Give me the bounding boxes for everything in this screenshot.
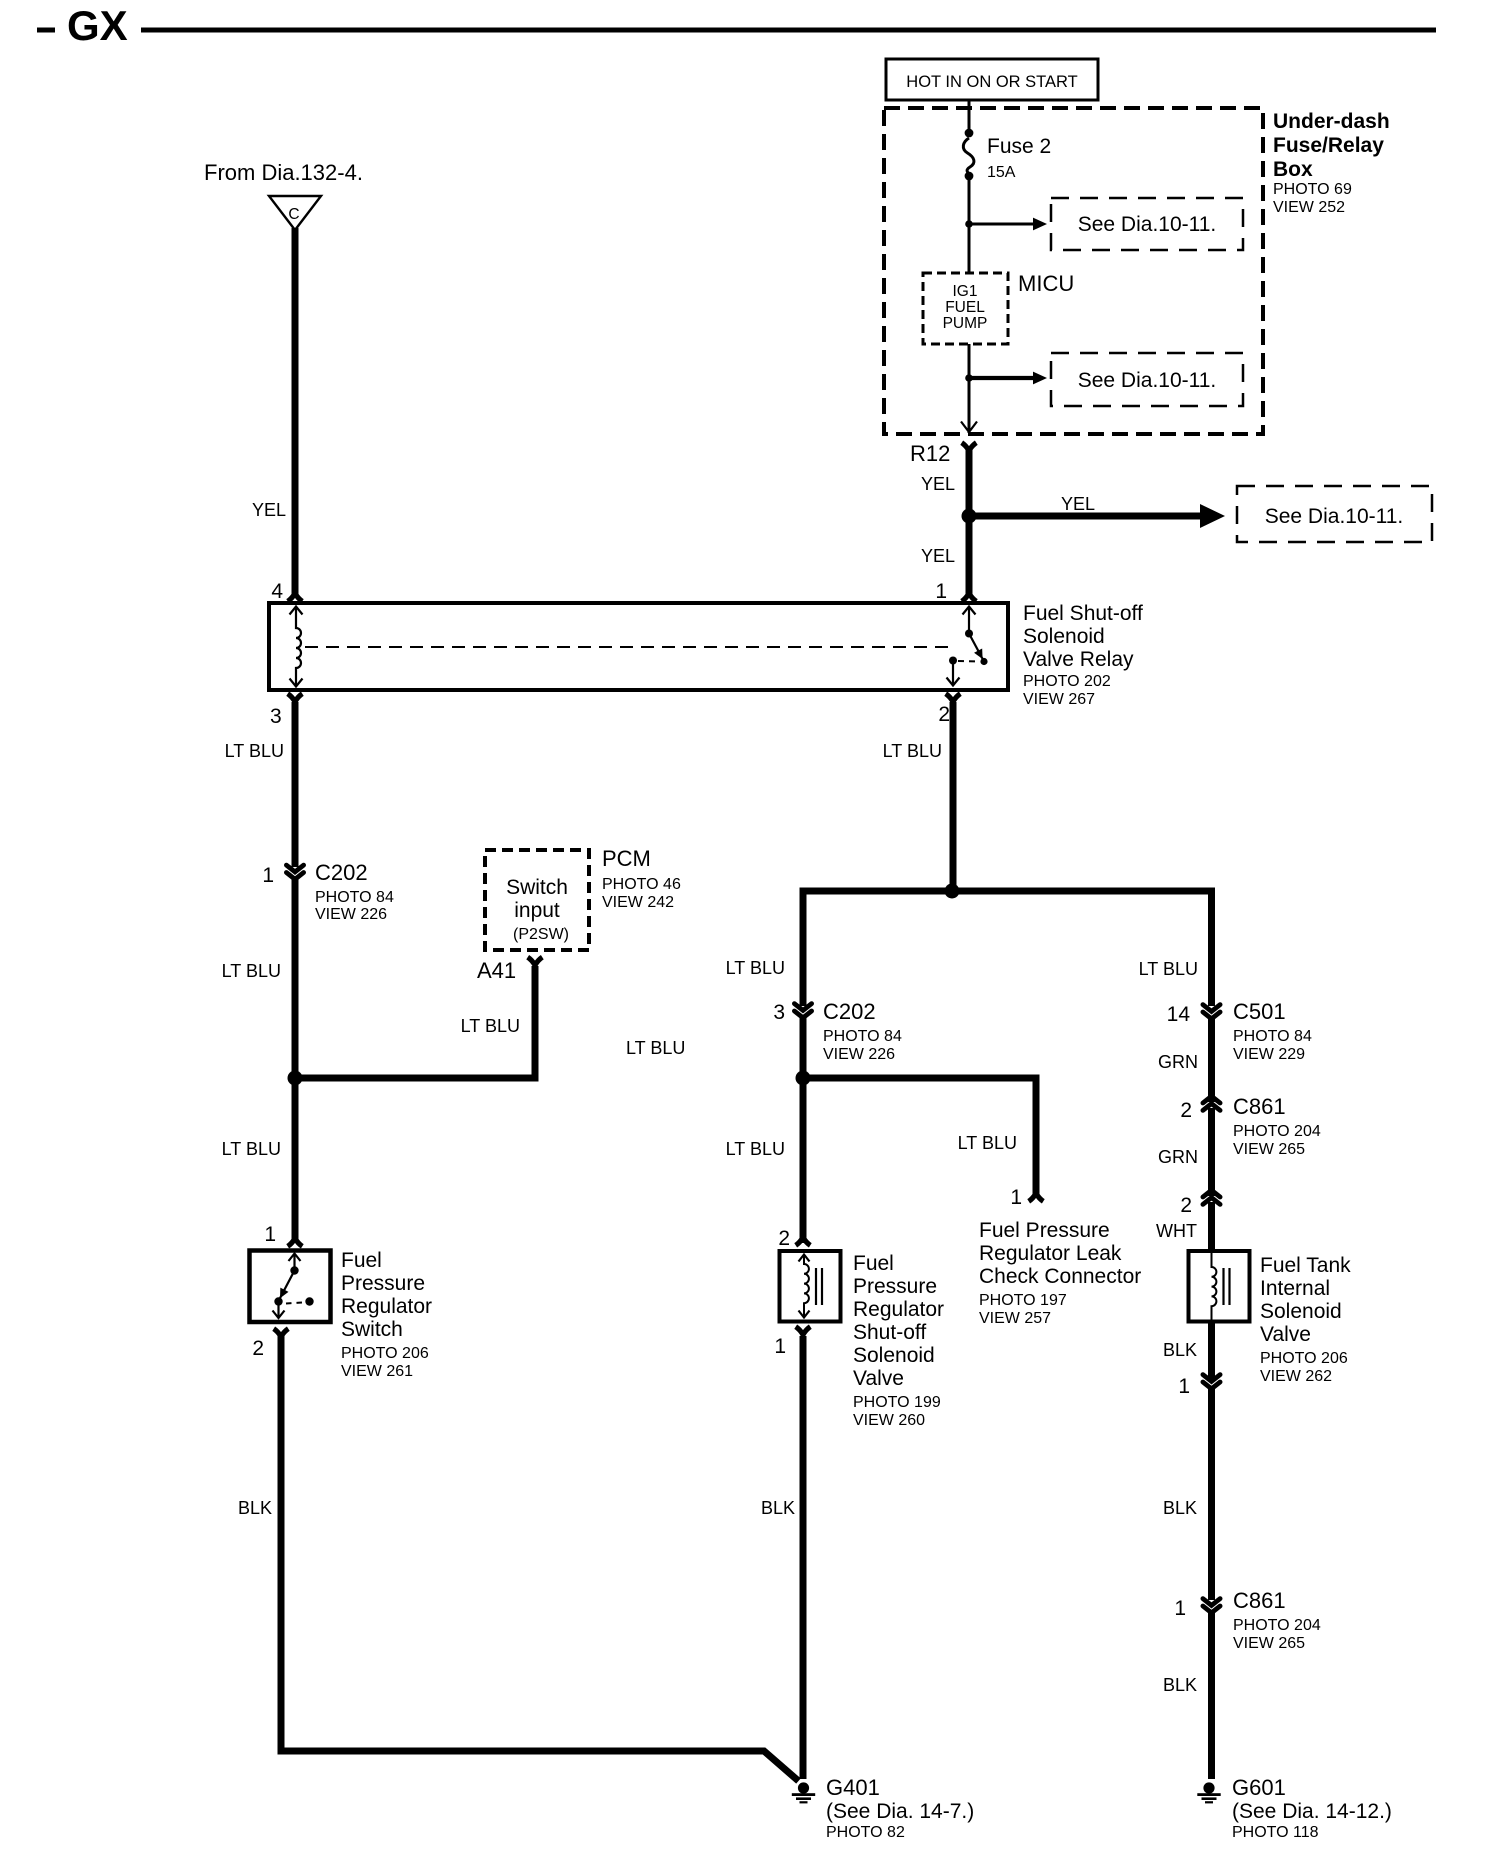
wire: branch to leak check connector <box>803 1078 1036 1197</box>
connector C861 pin 1 <box>1203 1588 1321 1652</box>
label Fuel Pressure Regulator Shut-off Solenoid Valve <box>853 1252 944 1429</box>
svg-text:Solenoid: Solenoid <box>1023 625 1105 648</box>
label Fuel Pressure Regulator Leak Check Connector <box>979 1219 1141 1327</box>
svg-text:C501: C501 <box>1233 999 1286 1024</box>
svg-text:VIEW 257: VIEW 257 <box>979 1310 1051 1327</box>
svg-text:C861: C861 <box>1233 1588 1286 1613</box>
connector R12 <box>910 441 976 466</box>
svg-text:(See Dia. 14-7.): (See Dia. 14-7.) <box>826 1800 974 1823</box>
wire: tank valve to pin 1 connector <box>1208 1320 1215 1380</box>
svg-text:Regulator Leak: Regulator Leak <box>979 1242 1122 1265</box>
svg-text:Under-dash: Under-dash <box>1273 110 1390 133</box>
label PCM <box>602 846 681 911</box>
wire: MICU to box exit <box>968 344 971 433</box>
svg-text:R12: R12 <box>910 441 950 466</box>
svg-text:1: 1 <box>1010 1186 1022 1209</box>
svg-text:PHOTO 206: PHOTO 206 <box>341 1345 429 1362</box>
wire: R12 to relay pin 1 <box>966 450 973 594</box>
See Dia.10-11. box (upper) <box>1051 198 1243 250</box>
relay link dashed line <box>305 646 948 648</box>
svg-text:14: 14 <box>1167 1003 1191 1026</box>
svg-text:PHOTO 206: PHOTO 206 <box>1260 1350 1348 1367</box>
svg-text:LT BLU: LT BLU <box>1139 959 1198 979</box>
svg-text:Pressure: Pressure <box>853 1275 937 1298</box>
svg-text:VIEW 261: VIEW 261 <box>341 1363 413 1380</box>
connector C202 pin 3 <box>794 999 902 1063</box>
svg-text:2: 2 <box>1180 1194 1192 1217</box>
label Fuel Tank Internal Solenoid Valve <box>1260 1254 1351 1385</box>
svg-text:C: C <box>288 206 299 223</box>
svg-text:PHOTO 199: PHOTO 199 <box>853 1394 941 1411</box>
svg-text:LT BLU: LT BLU <box>958 1133 1017 1153</box>
svg-text:PHOTO 84: PHOTO 84 <box>823 1028 902 1045</box>
svg-text:VIEW 265: VIEW 265 <box>1233 1141 1305 1158</box>
svg-text:1: 1 <box>774 1335 786 1358</box>
svg-text:2: 2 <box>778 1227 790 1250</box>
svg-text:Fuel Tank: Fuel Tank <box>1260 1254 1351 1277</box>
svg-text:Switch: Switch <box>506 876 568 899</box>
svg-text:Switch: Switch <box>341 1318 403 1341</box>
svg-text:LT BLU: LT BLU <box>222 1139 281 1159</box>
svg-text:GX: GX <box>67 2 128 49</box>
wire: hot box to fuse <box>968 100 971 133</box>
svg-text:C202: C202 <box>315 860 368 885</box>
svg-text:PUMP: PUMP <box>943 315 988 332</box>
svg-text:VIEW 262: VIEW 262 <box>1260 1368 1332 1385</box>
svg-text:1: 1 <box>935 580 947 603</box>
svg-text:PHOTO 204: PHOTO 204 <box>1233 1123 1321 1140</box>
svg-text:YEL: YEL <box>921 474 955 494</box>
svg-text:PHOTO 84: PHOTO 84 <box>315 889 394 906</box>
svg-text:MICU: MICU <box>1018 271 1074 296</box>
svg-text:PHOTO 204: PHOTO 204 <box>1233 1617 1321 1634</box>
connector at switch pin 2 <box>274 1329 289 1337</box>
svg-text:3: 3 <box>773 1001 785 1024</box>
svg-text:LT BLU: LT BLU <box>461 1016 520 1036</box>
svg-text:BLK: BLK <box>761 1498 795 1518</box>
svg-text:Box: Box <box>1273 158 1313 181</box>
connector at relay pin 1 <box>962 593 977 601</box>
svg-text:PCM: PCM <box>602 846 651 871</box>
svg-text:HOT IN ON OR START: HOT IN ON OR START <box>906 73 1077 91</box>
wire: bus right branch down to C501 <box>1208 891 1212 1006</box>
svg-text:Pressure: Pressure <box>341 1272 425 1295</box>
node: A41 junction <box>288 1071 303 1086</box>
hot box <box>886 59 1098 100</box>
svg-text:LT BLU: LT BLU <box>726 958 785 978</box>
svg-text:VIEW 267: VIEW 267 <box>1023 691 1095 708</box>
svg-text:VIEW 260: VIEW 260 <box>853 1412 925 1429</box>
svg-text:FUEL: FUEL <box>945 299 985 316</box>
svg-text:Check Connector: Check Connector <box>979 1265 1141 1288</box>
connector C501 pin 14 <box>1203 999 1312 1063</box>
connector C861 pin 2 <box>1203 1094 1321 1158</box>
svg-text:Regulator: Regulator <box>341 1295 432 1318</box>
wire: switch pin 2 to G401 <box>281 1335 799 1781</box>
connector tank valve pin 1 <box>1203 1375 1220 1389</box>
node: YEL junction <box>962 509 977 524</box>
svg-text:LT BLU: LT BLU <box>626 1038 685 1058</box>
svg-text:VIEW 226: VIEW 226 <box>315 906 387 923</box>
connector at relay pin 2 <box>946 694 961 702</box>
solenoid L1 coil <box>799 1255 823 1318</box>
svg-text:LT BLU: LT BLU <box>726 1139 785 1159</box>
svg-text:15A: 15A <box>987 164 1016 181</box>
title GX <box>37 2 128 49</box>
wire: horizontal bus <box>803 888 1212 895</box>
svg-text:input: input <box>514 899 560 922</box>
svg-text:From Dia.132-4.: From Dia.132-4. <box>204 160 363 185</box>
wire: branch arrow to See Dia lower <box>969 372 1047 385</box>
svg-text:BLK: BLK <box>238 1498 272 1518</box>
connector at shutoff valve pin 1 <box>796 1327 811 1335</box>
wire: C202 down to A41 junction <box>292 879 299 1243</box>
svg-text:2: 2 <box>1180 1099 1192 1122</box>
wire: branch arrow to See Dia upper <box>969 218 1047 231</box>
svg-text:A41: A41 <box>477 958 516 983</box>
solenoid L1 Fuel Pressure Regulator Shut-off Solenoid Valve box <box>780 1251 841 1322</box>
MICU IG1 FUEL PUMP box <box>923 273 1008 344</box>
svg-text:BLK: BLK <box>1163 1675 1197 1695</box>
svg-text:Solenoid: Solenoid <box>1260 1300 1342 1323</box>
connector leak check pin 1 <box>1010 1186 1043 1209</box>
svg-text:Solenoid: Solenoid <box>853 1344 935 1367</box>
svg-text:G601: G601 <box>1232 1775 1286 1800</box>
svg-text:VIEW 265: VIEW 265 <box>1233 1635 1305 1652</box>
svg-text:1: 1 <box>1178 1375 1190 1398</box>
svg-text:YEL: YEL <box>252 500 286 520</box>
svg-text:LT BLU: LT BLU <box>883 741 942 761</box>
svg-text:1: 1 <box>1174 1597 1186 1620</box>
connector at relay pin 3 <box>288 694 303 702</box>
svg-text:C861: C861 <box>1233 1094 1286 1119</box>
wire: tank valve connector to C861 pin 1 <box>1208 1389 1215 1601</box>
svg-text:Fuel: Fuel <box>853 1252 894 1275</box>
title rule <box>141 28 1436 33</box>
wire: bus left branch down to C202 pin 3 <box>803 891 807 1006</box>
wire: junction to A41 <box>295 966 535 1078</box>
switch S1 Fuel Pressure Regulator Switch box <box>250 1251 331 1323</box>
See Dia.10-11. box (lower) <box>1051 353 1243 406</box>
wire: fuse to MICU <box>968 176 971 273</box>
svg-text:Fuse 2: Fuse 2 <box>987 135 1051 158</box>
connector at switch pin 1 <box>288 1238 303 1246</box>
svg-text:PHOTO 46: PHOTO 46 <box>602 876 681 893</box>
wire: relay pin 2 down to junction <box>950 702 957 891</box>
svg-text:3: 3 <box>270 705 282 728</box>
wire: relay pin 3 down to C202 <box>292 702 299 867</box>
svg-text:PHOTO 202: PHOTO 202 <box>1023 673 1111 690</box>
svg-text:Fuse/Relay: Fuse/Relay <box>1273 134 1384 157</box>
solenoid L2 Fuel Tank Internal Solenoid Valve box <box>1189 1251 1250 1322</box>
svg-text:Regulator: Regulator <box>853 1298 944 1321</box>
svg-text:See Dia.10-11.: See Dia.10-11. <box>1078 213 1217 236</box>
connector at relay pin 4 <box>288 593 303 601</box>
svg-text:PHOTO 82: PHOTO 82 <box>826 1824 905 1841</box>
svg-text:PHOTO 69: PHOTO 69 <box>1273 181 1352 198</box>
node: leak check junction <box>796 1071 811 1086</box>
svg-text:PHOTO 84: PHOTO 84 <box>1233 1028 1312 1045</box>
svg-text:IG1: IG1 <box>953 283 978 300</box>
svg-text:Valve: Valve <box>1260 1323 1311 1346</box>
svg-text:YEL: YEL <box>921 546 955 566</box>
wire: YEL branch arrow to See Dia right <box>969 494 1225 528</box>
svg-text:PHOTO 197: PHOTO 197 <box>979 1292 1067 1309</box>
svg-text:(P2SW): (P2SW) <box>513 926 569 943</box>
relay K1 Fuel Shut-off Solenoid Valve Relay box <box>269 603 1008 690</box>
fuse F2 15A <box>963 129 1051 181</box>
label Fuel Pressure Regulator Switch <box>341 1249 432 1380</box>
wire: C501 to C861 <box>1208 1019 1215 1103</box>
PCM switch input box <box>485 850 589 950</box>
wire: C202 pin 3 to leak junction <box>800 1018 807 1244</box>
svg-text:Valve Relay: Valve Relay <box>1023 648 1134 671</box>
svg-text:BLK: BLK <box>1163 1498 1197 1518</box>
svg-text:VIEW 252: VIEW 252 <box>1273 199 1345 216</box>
svg-text:Internal: Internal <box>1260 1277 1330 1300</box>
wire: C861 to WHT connector <box>1208 1108 1215 1196</box>
svg-text:G401: G401 <box>826 1775 880 1800</box>
svg-text:YEL: YEL <box>1061 494 1095 514</box>
wire: shutoff valve to G401 <box>800 1336 807 1779</box>
svg-text:BLK: BLK <box>1163 1340 1197 1360</box>
svg-text:1: 1 <box>262 864 274 887</box>
connector pin 2 (WHT) <box>1203 1190 1220 1204</box>
ground G401 <box>792 1775 974 1841</box>
svg-text:C202: C202 <box>823 999 876 1024</box>
svg-text:Valve: Valve <box>853 1367 904 1390</box>
svg-text:LT BLU: LT BLU <box>222 961 281 981</box>
svg-text:Fuel Pressure: Fuel Pressure <box>979 1219 1110 1242</box>
wire: connector to tank valve <box>1208 1202 1215 1253</box>
ground G601 <box>1197 1775 1392 1841</box>
label Fuel Shut-off Solenoid Valve Relay <box>1023 602 1143 708</box>
svg-text:VIEW 242: VIEW 242 <box>602 894 674 911</box>
connector at shutoff valve pin 2 <box>796 1237 811 1245</box>
svg-text:WHT: WHT <box>1156 1221 1197 1241</box>
svg-text:2: 2 <box>938 703 950 726</box>
label Under-dash Fuse/Relay Box <box>1273 110 1390 216</box>
connector A41 <box>477 957 542 983</box>
node: branch to See Dia (lower) <box>965 374 973 382</box>
See Dia.10-11. box (right) <box>1237 486 1432 542</box>
svg-text:LT BLU: LT BLU <box>225 741 284 761</box>
svg-text:GRN: GRN <box>1158 1052 1198 1072</box>
connector C202 pin 1 <box>286 860 394 923</box>
arrow at fuse box exit <box>961 422 977 433</box>
wire: C861 pin 1 to G601 <box>1208 1613 1215 1780</box>
svg-text:Fuel Shut-off: Fuel Shut-off <box>1023 602 1143 625</box>
svg-text:Fuel: Fuel <box>341 1249 382 1272</box>
relay coil <box>290 607 303 687</box>
svg-text:See Dia.10-11.: See Dia.10-11. <box>1078 369 1217 392</box>
node: branch to See Dia (upper) <box>965 220 973 228</box>
node: junction at bus <box>945 884 960 899</box>
svg-text:GRN: GRN <box>1158 1147 1198 1167</box>
under-dash fuse/relay box (dashed) <box>884 108 1263 434</box>
svg-text:4: 4 <box>271 580 283 603</box>
connector triangle C <box>269 196 321 230</box>
svg-text:See Dia.10-11.: See Dia.10-11. <box>1265 505 1404 528</box>
relay switch contact <box>947 607 988 686</box>
solenoid L2 coil <box>1212 1253 1230 1320</box>
svg-text:PHOTO 118: PHOTO 118 <box>1232 1824 1319 1841</box>
svg-text:1: 1 <box>264 1223 276 1246</box>
svg-text:(See Dia. 14-12.): (See Dia. 14-12.) <box>1232 1800 1392 1823</box>
svg-text:VIEW 226: VIEW 226 <box>823 1046 895 1063</box>
svg-text:Shut-off: Shut-off <box>853 1321 926 1344</box>
svg-text:VIEW 229: VIEW 229 <box>1233 1046 1305 1063</box>
wire: triangle C to relay pin 4 <box>292 228 299 594</box>
switch S1 contact <box>273 1254 314 1319</box>
svg-text:2: 2 <box>252 1337 264 1360</box>
